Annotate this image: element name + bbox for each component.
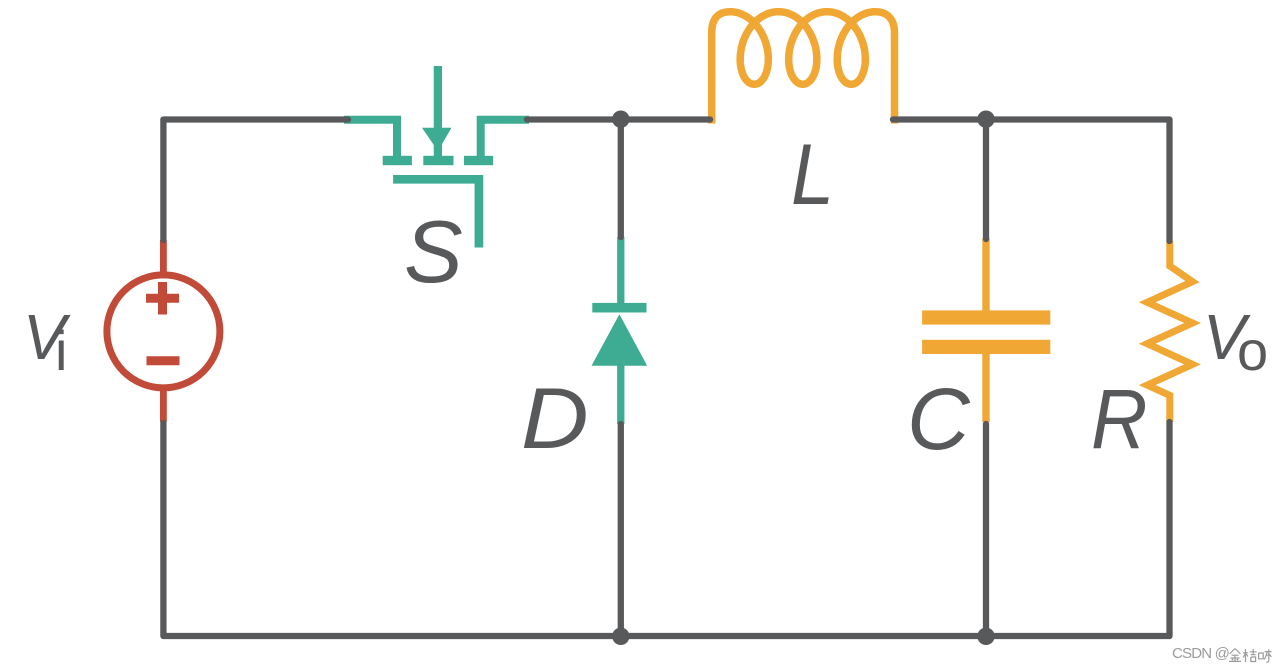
MOSFET S right (source) connection: [481, 120, 529, 158]
diode D bottom lead (teal): [617, 360, 624, 424]
MOSFET S right pad: [464, 156, 493, 165]
watermark CSDN: [1172, 645, 1229, 662]
MOSFET S left (drain) connection: [344, 120, 397, 158]
wire: top-left run and upper-left vertical: [163, 120, 348, 241]
wire: lower-left vertical, bottom run, lower-right vertical: [163, 422, 1169, 636]
diode D cathode bar: [592, 303, 646, 313]
MOSFET S arrow (body) line: [434, 66, 442, 156]
diode D top lead (teal): [617, 237, 624, 308]
watermark CJK glyph ya: [1259, 649, 1272, 662]
label Vo: [1203, 300, 1246, 374]
label Vi subscript i: [55, 318, 67, 383]
wire: top middle (S to inductor): [527, 116, 710, 122]
label D: [521, 370, 589, 469]
voltage source Vi circle: [107, 275, 220, 388]
capacitor C top plate: [922, 310, 1050, 324]
wire: diode upper gray: [618, 120, 624, 238]
diode D anode triangle: [592, 314, 648, 365]
capacitor C top lead: [982, 238, 989, 314]
watermark CJK glyph ju: [1243, 649, 1257, 662]
label Vo subscript o: [1237, 318, 1268, 383]
junction dot top of diode branch: [612, 111, 629, 128]
label C: [907, 370, 970, 470]
label L: [791, 126, 834, 225]
junction dot bottom of capacitor branch: [977, 628, 994, 645]
resistor R zigzag: [1147, 241, 1192, 422]
wire: capacitor upper gray: [983, 120, 989, 240]
voltage source Vi top lead (red): [160, 240, 167, 278]
voltage source minus sign: [147, 356, 180, 365]
watermark CJK glyph jin: [1229, 649, 1272, 663]
MOSFET S gate: [393, 179, 479, 247]
label R: [1091, 371, 1147, 468]
voltage source plus sign: [146, 282, 179, 315]
voltage source Vi bottom lead (red): [160, 385, 167, 422]
MOSFET S left pad: [383, 156, 412, 165]
label Vi: [23, 300, 66, 374]
junction dot bottom of diode branch: [612, 628, 629, 645]
wire: top right (inductor to corner, down to R): [893, 120, 1170, 242]
label S: [404, 201, 463, 303]
MOSFET S middle pad: [423, 156, 453, 165]
MOSFET S arrow head: [422, 128, 452, 151]
wire: capacitor lower gray: [983, 424, 989, 636]
junction dot top of capacitor branch: [977, 111, 994, 128]
inductor L coil: [712, 12, 895, 124]
capacitor C bottom plate: [922, 340, 1050, 354]
capacitor C bottom lead: [982, 351, 989, 422]
wire: diode lower gray: [618, 424, 624, 636]
